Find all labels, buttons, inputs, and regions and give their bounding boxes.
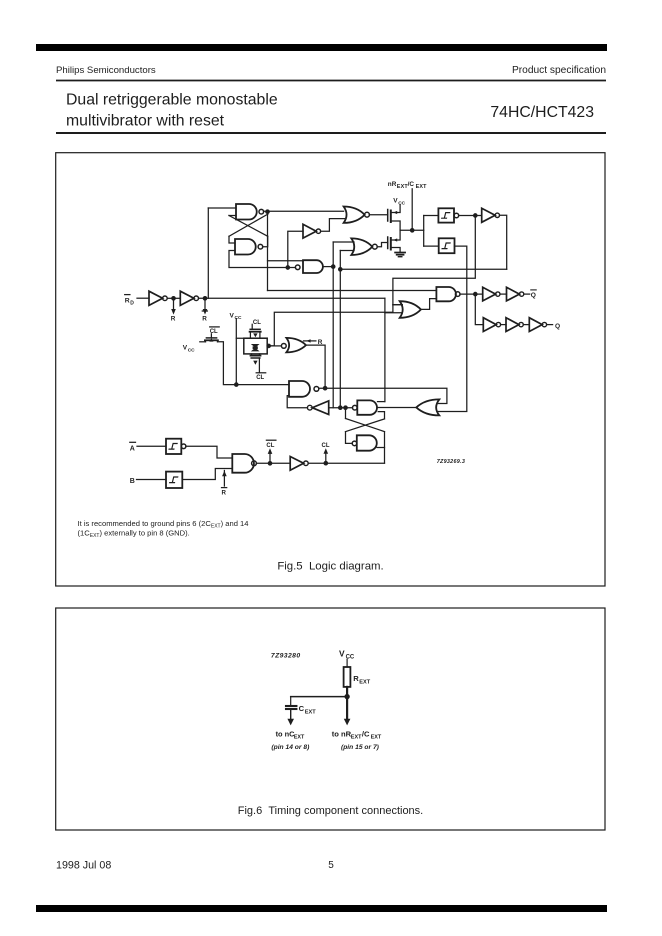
wire: long horizontal to output NAND top input bbox=[268, 290, 437, 292]
nor RNOR (retrigger nor) bbox=[281, 344, 286, 349]
wire: N2 bottom input wrap to node line bbox=[229, 251, 295, 268]
wire: feedback line from INV2 loop bbox=[340, 268, 506, 270]
wire: U2 right vertical down to OR2 bbox=[438, 246, 467, 411]
arrow to nCEXT bbox=[287, 719, 294, 726]
wire: right cross vertical to N1 output node bbox=[267, 212, 269, 215]
svg-text:CL: CL bbox=[210, 329, 218, 335]
svg-text:(pin 15 or 7): (pin 15 or 7) bbox=[341, 744, 380, 751]
inverter INVCL bbox=[290, 457, 303, 471]
node: N1 output junction bbox=[266, 210, 269, 213]
node: INV1 input junction on node line bbox=[286, 266, 289, 269]
wire: capacitor down bbox=[290, 710, 292, 719]
header rule bbox=[56, 80, 606, 82]
label VCC (above CL transistor) bbox=[230, 312, 242, 321]
label QBAR output bbox=[531, 292, 536, 299]
wire: TG top rail bbox=[236, 337, 267, 339]
nand NQ (output nand) bbox=[436, 287, 456, 301]
svg-text:74HC/HCT423: 74HC/HCT423 bbox=[490, 104, 594, 121]
wire: V2 stub to NOR2 bottom input bbox=[340, 250, 354, 252]
wire: VCC to resistor bbox=[346, 659, 348, 667]
svg-text:to nR: to nR bbox=[332, 729, 352, 738]
nand N1 (latch upper) bbox=[236, 204, 257, 220]
wire: N1 output vertical down bbox=[267, 212, 269, 291]
svg-text:CL: CL bbox=[256, 375, 264, 381]
wire: UA out to NAND5 bbox=[186, 446, 232, 458]
svg-text:Q: Q bbox=[555, 323, 560, 330]
wire: N1 output to NOR1 bbox=[264, 210, 344, 212]
wire: V1 stub to NOR2 top input bbox=[333, 241, 354, 243]
nand LN2 (lower latch lower gate) bbox=[352, 441, 357, 446]
or OR1 bbox=[400, 301, 421, 318]
svg-text:V: V bbox=[339, 648, 345, 658]
wire: RNOR output down to pulse line bbox=[306, 345, 325, 388]
node: CLbar tap bbox=[268, 462, 271, 465]
title rule bbox=[56, 132, 606, 134]
svg-text:to nC: to nC bbox=[276, 729, 296, 738]
label CLbar (below TG) bbox=[256, 375, 264, 381]
svg-text:nR: nR bbox=[388, 181, 397, 188]
wire: left vertical from RD line up to NAND1 top input bbox=[207, 208, 209, 298]
wire: INV1 out up to NOR1 lower input bbox=[321, 219, 345, 232]
svg-text:R: R bbox=[171, 316, 176, 323]
nand N2 (latch lower) bbox=[235, 239, 256, 255]
wire: LN2 output stub bbox=[377, 447, 384, 449]
wire: UB out to NAND5 bbox=[182, 469, 232, 480]
svg-text:R: R bbox=[222, 489, 227, 496]
wire: lower latch cross diagonals bbox=[346, 419, 385, 432]
wire: RD vertical branch (down right side) bbox=[384, 298, 386, 401]
inverter Q2i bbox=[506, 318, 519, 332]
wire: NQ output to inverter chain bbox=[460, 293, 483, 295]
node: V2 to feedback line junction bbox=[339, 268, 342, 271]
transistor CLB pass (left) bbox=[200, 341, 206, 343]
wire: TG output up and right to OR1 bbox=[269, 312, 393, 346]
wire: N1 lower input bracket bbox=[229, 215, 236, 217]
svg-text:1998 Jul 08: 1998 Jul 08 bbox=[56, 860, 111, 872]
svg-text:R: R bbox=[202, 316, 207, 323]
wire: latch cross coupling diagonals bbox=[229, 216, 268, 237]
wire: NQ bottom input from OR1 bbox=[421, 299, 436, 310]
svg-text:Dual retriggerable monostable: Dual retriggerable monostable bbox=[66, 92, 278, 109]
transistor TGN (below TG box) bbox=[251, 354, 253, 356]
inverter RD2 bbox=[180, 291, 194, 305]
svg-text:(pin 14 or 8): (pin 14 or 8) bbox=[271, 744, 310, 751]
wire: OR1 top input stub bbox=[393, 304, 402, 306]
svg-text:7Z93280: 7Z93280 bbox=[271, 653, 301, 660]
svg-text:EXT: EXT bbox=[351, 735, 362, 741]
wire: NOR1 output to Q1 gate bbox=[369, 214, 387, 216]
schmitt U2 bbox=[439, 238, 455, 253]
or OR2 (points left) bbox=[416, 399, 439, 415]
svg-text:(1CEXT) externally to pin 8 (G: (1CEXT) externally to pin 8 (GND). bbox=[78, 529, 190, 540]
transmission gate TG element bbox=[251, 344, 260, 351]
arrow to nREXT/CEXT bbox=[344, 719, 351, 726]
inverter QB2 bbox=[507, 287, 520, 301]
label nREXT/CEXT bbox=[388, 181, 427, 190]
node: V2 end junction bbox=[339, 406, 342, 409]
svg-text:CC: CC bbox=[188, 347, 195, 353]
fig5 frame bbox=[56, 153, 605, 586]
node RBAR (junction with down arrow) bbox=[203, 297, 206, 300]
wire: vertical up to INV1 input bbox=[288, 231, 303, 267]
wire: between RD inverters bbox=[167, 297, 180, 299]
wire: left bracket verticals bbox=[345, 408, 347, 419]
wire: RD line across bbox=[199, 297, 385, 299]
node: external pin rail junction bbox=[411, 229, 414, 232]
svg-text:7Z93269.3: 7Z93269.3 bbox=[437, 459, 465, 465]
label B input bbox=[130, 478, 135, 485]
label 7Z93280 bbox=[271, 653, 301, 660]
svg-text:EXT: EXT bbox=[371, 735, 382, 741]
svg-text:multivibrator with reset: multivibrator with reset bbox=[66, 113, 225, 130]
svg-text:5: 5 bbox=[328, 860, 334, 871]
svg-text:R: R bbox=[125, 298, 130, 305]
label VCC (top) bbox=[393, 198, 405, 207]
wire: RSD input line to first inverter bbox=[137, 297, 149, 299]
transistor CLT (top of TG) bbox=[251, 324, 253, 329]
wire: NAND3 output to V1 bbox=[323, 266, 333, 268]
wire: pass transistor to NAND4 input rail bbox=[218, 342, 290, 385]
wire: nREXT/CEXT vertical bbox=[411, 189, 413, 231]
svg-text:EXT: EXT bbox=[416, 184, 428, 190]
node junction bbox=[345, 695, 349, 699]
wire: LN1 right bracket bbox=[378, 412, 384, 419]
svg-text:Philips Semiconductors: Philips Semiconductors bbox=[56, 65, 156, 76]
wire: rail between transistors and schmitt branch bbox=[400, 229, 424, 231]
wire: NAND4 lower input wrap from INVL bbox=[287, 396, 307, 408]
nand NAND3 (bubble input) bbox=[295, 265, 300, 270]
label to nCEXT bbox=[276, 729, 305, 740]
label pin 15 or 7 bbox=[341, 744, 380, 751]
svg-text:EXT: EXT bbox=[305, 709, 316, 715]
node: TG output junction bbox=[267, 344, 270, 347]
transistor Q2 (nmos) bbox=[387, 237, 389, 249]
nor NOR2 bbox=[351, 238, 372, 255]
svg-text:CL: CL bbox=[266, 443, 274, 449]
nand LN1 (lower latch upper gate) bbox=[353, 405, 358, 410]
wire: line to latch LN1 bubble bbox=[329, 407, 353, 409]
svg-text:Product specification: Product specification bbox=[512, 65, 606, 76]
wire: B input bbox=[137, 479, 167, 481]
svg-text:A: A bbox=[130, 445, 135, 452]
schmitt UA bbox=[166, 439, 181, 454]
label RBAR below second junction bbox=[202, 316, 207, 323]
svg-text:CC: CC bbox=[235, 315, 242, 321]
PAGE CHROME bbox=[36, 44, 607, 912]
label CL (gate of top transistor) bbox=[253, 320, 261, 326]
svg-text:CC: CC bbox=[398, 200, 405, 206]
wire: CL line to lower latch bbox=[308, 462, 384, 464]
wire: vertical V1 bbox=[332, 242, 334, 408]
wire: right bracket down to CL line bbox=[384, 432, 386, 464]
inverter INVL (points left) bbox=[307, 405, 312, 410]
wire: NQ branch down to Q row bbox=[475, 294, 483, 325]
wire: vertical V2 bbox=[339, 251, 341, 408]
bottom black bar bbox=[36, 905, 607, 912]
wire: NAND5 output to INVCL bbox=[256, 462, 290, 464]
inverter Q3i bbox=[529, 318, 542, 332]
label RBAR arrow into NAND5 bbox=[223, 471, 225, 487]
top black bar bbox=[36, 44, 607, 51]
wire: INV2 output loop down bbox=[500, 215, 507, 269]
svg-text:Fig.5 Logic diagram.: Fig.5 Logic diagram. bbox=[277, 561, 383, 573]
wire: right cross stub to N2 output bbox=[263, 236, 268, 246]
label VCC bbox=[339, 648, 355, 660]
inverter RD1 bbox=[149, 291, 163, 305]
svg-text:EXT: EXT bbox=[294, 735, 305, 741]
wire: VCC vertical down to rail and TG frame drop bbox=[235, 319, 237, 385]
wire: TG output to RNOR bubble bbox=[267, 345, 281, 347]
ground bbox=[395, 252, 405, 254]
svg-text:CL: CL bbox=[253, 320, 261, 326]
label R below first junction bbox=[171, 316, 176, 323]
svg-text:Q: Q bbox=[531, 292, 536, 299]
wire: A input bbox=[137, 445, 166, 447]
svg-text:R: R bbox=[353, 674, 359, 683]
inverter Q1i bbox=[483, 318, 496, 332]
node R (junction with down arrow) bbox=[172, 297, 175, 300]
inverter INV1 bbox=[303, 224, 316, 238]
label R with arrow (retrigger input) bbox=[304, 340, 316, 342]
nand NAND5 (trigger) bbox=[232, 454, 254, 473]
label 7Z93269.3 bbox=[437, 459, 465, 465]
label Q output bbox=[555, 323, 560, 330]
node: LN cross bracket junction bbox=[344, 406, 347, 409]
wire: NOR2 output to Q2 gate bbox=[377, 243, 388, 247]
wire: U1 out to INV2 bbox=[459, 215, 482, 217]
svg-text:/C: /C bbox=[408, 181, 415, 188]
label CLbar (above pass transistor) bbox=[210, 329, 218, 335]
schmitt UB bbox=[166, 472, 182, 488]
label VCC (left of pass transistor) bbox=[183, 345, 195, 354]
svg-text:CL: CL bbox=[322, 443, 330, 449]
inverter INV2 bbox=[482, 208, 495, 222]
label pin 14 or 8 bbox=[271, 744, 310, 751]
label RD-bar input bbox=[125, 298, 135, 307]
svg-text:Fig.6 Timing component connec: Fig.6 Timing component connections. bbox=[238, 805, 423, 817]
resistor REXT bbox=[344, 667, 351, 687]
wire: LN1 output to OR2 nose bbox=[377, 407, 416, 409]
schmitt U1 bbox=[438, 208, 454, 222]
svg-text:EXT: EXT bbox=[359, 679, 370, 685]
svg-text:D: D bbox=[130, 301, 134, 307]
nand NAND4 (pulse) bbox=[289, 381, 310, 397]
wire: resistor to node (bold) bbox=[346, 687, 348, 719]
wire: cross to N2 top input bbox=[229, 236, 235, 243]
node: TG frame junction on rail bbox=[235, 383, 238, 386]
node: CL tap bbox=[324, 462, 327, 465]
wire: U1 branch down-left to OR1 top bbox=[393, 216, 475, 313]
inverter QB1 bbox=[483, 287, 496, 301]
svg-text:/C: /C bbox=[362, 729, 370, 738]
svg-text:B: B bbox=[130, 478, 135, 485]
transmission gate TG box bbox=[244, 338, 267, 354]
svg-text:C: C bbox=[299, 704, 305, 713]
capacitor CEXT bbox=[286, 705, 296, 707]
transistor Q1 (pmos) bbox=[387, 210, 389, 222]
nor NOR1 bbox=[344, 207, 365, 223]
label Abar input bbox=[130, 445, 135, 452]
wire: node left to capacitor branch bbox=[291, 696, 347, 698]
label to nREXT/CEXT bbox=[332, 729, 382, 740]
wire: stub into NAND3 top input bbox=[268, 260, 304, 262]
wire: NAND4 output line bbox=[319, 388, 447, 403]
fig6 frame bbox=[56, 608, 605, 830]
